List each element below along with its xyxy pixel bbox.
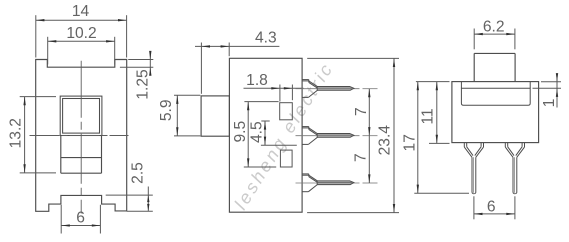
dimension 4.3 (actuator length) xyxy=(195,30,279,94)
dimension 14 (left view width) xyxy=(36,3,127,58)
dimension 10.2 (distance between ears) xyxy=(48,25,115,64)
svg-text:1.8: 1.8 xyxy=(246,72,268,89)
dimension 6.2 (knob width) xyxy=(474,19,515,50)
dimension 9.5 (contact span) xyxy=(232,102,279,167)
svg-text:7: 7 xyxy=(353,107,370,116)
svg-text:1: 1 xyxy=(541,99,558,108)
svg-text:2.5: 2.5 xyxy=(130,162,147,184)
left view switch body outline xyxy=(36,60,127,212)
dimension 2.5 (bottom boss height) xyxy=(106,162,153,211)
svg-text:7: 7 xyxy=(352,153,369,162)
svg-text:1.25: 1.25 xyxy=(135,69,152,100)
middle view contact window 2 xyxy=(280,150,292,167)
dimension 1.8 (contact window width) xyxy=(244,72,304,102)
dimension 1 (frame depth) xyxy=(533,73,562,107)
svg-text:4.5: 4.5 xyxy=(249,121,266,143)
right view body xyxy=(452,82,539,143)
pin 3 (side view, center y=183.0) xyxy=(296,174,378,192)
svg-text:17: 17 xyxy=(402,134,419,151)
dimension 1.25 (ear step height) xyxy=(120,51,153,100)
svg-text:6: 6 xyxy=(76,210,85,227)
right pin 2 (center x=514.9) xyxy=(505,143,524,194)
svg-text:9.5: 9.5 xyxy=(232,121,249,143)
svg-text:13.2: 13.2 xyxy=(7,118,24,148)
svg-text:11: 11 xyxy=(419,108,436,124)
dimension 7 (pin pitch lower) xyxy=(352,136,370,183)
pin 2 (side view, center y=135.7) xyxy=(296,127,378,145)
svg-text:5.9: 5.9 xyxy=(158,99,175,121)
right view knob xyxy=(474,53,515,81)
dimension 11 (body height) xyxy=(416,82,450,144)
dimension 23.4 (overall height) xyxy=(307,58,399,212)
left view lower section xyxy=(61,136,102,174)
dimension 13.2 (slider section height) xyxy=(7,97,56,173)
dimension 6 (pin spacing right view) xyxy=(474,196,515,219)
svg-text:6.2: 6.2 xyxy=(483,19,505,36)
middle view contact window 1 xyxy=(280,103,293,120)
middle view body xyxy=(229,58,302,212)
right view inner frame xyxy=(461,82,530,105)
svg-text:23.4: 23.4 xyxy=(376,125,393,156)
svg-text:10.2: 10.2 xyxy=(66,25,96,42)
watermark lesheng electric xyxy=(230,58,337,213)
left view vertical center line xyxy=(80,61,82,214)
left view horizontal axis line xyxy=(30,135,129,137)
dimension 7 (pin pitch upper) xyxy=(353,89,370,136)
dimension 17 (overall height with pins) xyxy=(402,82,470,194)
dimension 4.5 (contact pitch) xyxy=(249,121,297,145)
pin 1 (side view, center y=88.7) xyxy=(296,80,378,98)
right pin 1 (center x=473.9) xyxy=(464,143,483,194)
left view slider knob square xyxy=(60,96,102,135)
svg-text:6: 6 xyxy=(487,198,496,215)
svg-text:4.3: 4.3 xyxy=(255,30,277,47)
svg-text:14: 14 xyxy=(72,3,90,20)
dimension 6 (bottom boss width) xyxy=(61,205,100,234)
middle view actuator protrusion xyxy=(201,96,229,136)
dimension 5.9 (actuator height) xyxy=(158,95,200,136)
